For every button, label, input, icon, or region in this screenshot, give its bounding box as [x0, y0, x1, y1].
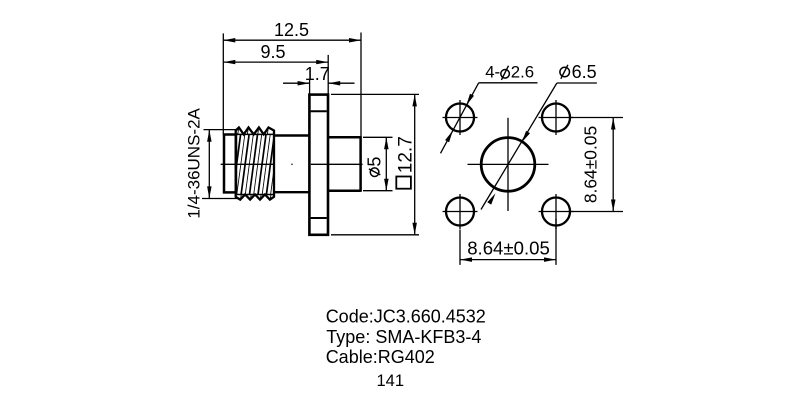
svg-text:2.6: 2.6	[511, 63, 534, 82]
svg-text:141: 141	[377, 372, 405, 390]
svg-text:12.7: 12.7	[395, 136, 416, 173]
svg-text:6.5: 6.5	[572, 62, 597, 82]
svg-text:8.64±0.05: 8.64±0.05	[581, 126, 601, 203]
svg-text:1/4-36UNS-2A: 1/4-36UNS-2A	[185, 107, 204, 218]
svg-text:12.5: 12.5	[274, 20, 309, 40]
svg-text:Code:JC3.660.4532: Code:JC3.660.4532	[326, 306, 486, 326]
svg-text:8.64±0.05: 8.64±0.05	[467, 237, 550, 258]
svg-text:5: 5	[365, 157, 385, 167]
svg-text:9.5: 9.5	[260, 42, 285, 62]
svg-text:Cable:RG402: Cable:RG402	[326, 347, 435, 367]
svg-text:4-: 4-	[485, 63, 500, 82]
svg-text:Type: SMA-KFB3-4: Type: SMA-KFB3-4	[326, 327, 481, 347]
svg-text:1.7: 1.7	[305, 64, 330, 84]
